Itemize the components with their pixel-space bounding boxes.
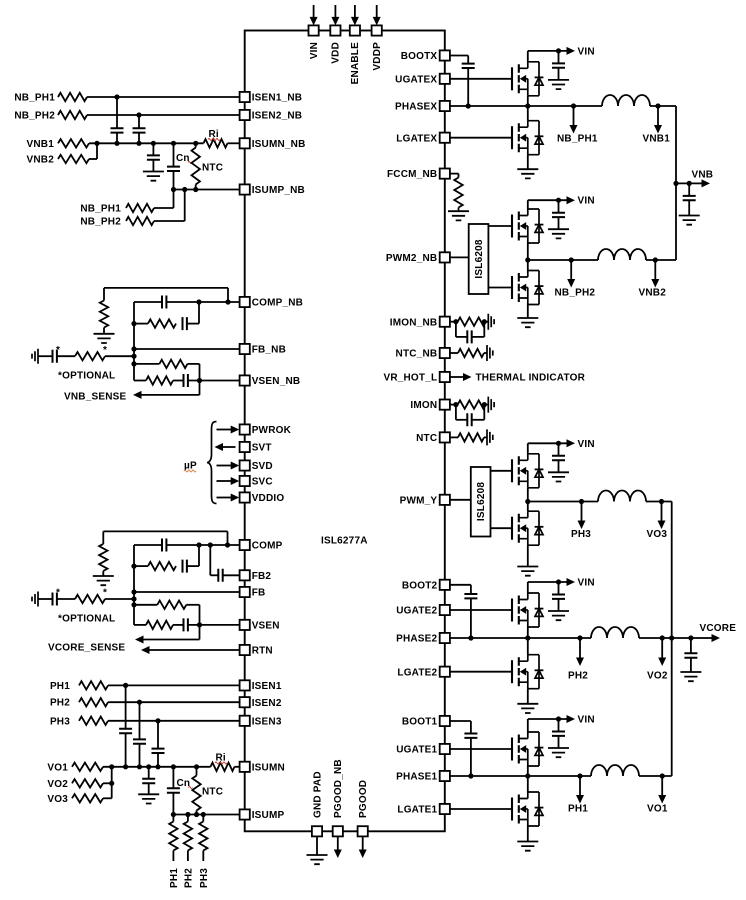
ground QX low source — [517, 169, 538, 178]
pin COMP — [240, 540, 250, 550]
arrow VCORE output — [688, 635, 693, 640]
resistor and capacitor IMON network — [450, 404, 458, 406]
wire COMP_NB upper loop — [104, 287, 228, 289]
svg-text:VSEN: VSEN — [252, 621, 280, 632]
wire Q1 low drain to PHASE1 — [527, 776, 529, 792]
wire QX drain to VIN — [527, 51, 529, 62]
inductor L phase1 — [591, 765, 639, 776]
svg-text:VO3: VO3 — [647, 529, 668, 540]
wire UGATEX to gate — [450, 78, 512, 80]
junction dots on VNB summing line — [94, 141, 99, 146]
pin ISEN1 — [240, 680, 250, 690]
svg-text:*OPTIONAL: *OPTIONAL — [58, 371, 115, 382]
ground GND PAD — [316, 836, 318, 855]
svg-text:ISUMP: ISUMP — [252, 810, 285, 821]
wire BOOT1 — [450, 720, 471, 722]
svg-text:PHASEX: PHASEX — [395, 102, 437, 113]
junction dots ISUMP line — [171, 812, 176, 817]
wire QY source to PH3 node — [527, 488, 529, 502]
resistor COMP to ground — [102, 531, 104, 544]
arrow PGOOD_NB output — [337, 836, 339, 850]
inductor L NB phase2 — [598, 249, 646, 260]
node junction NB_PH2 line — [136, 112, 141, 117]
resistor NTC network — [450, 436, 458, 438]
resistor PH1 to ISUMP — [172, 815, 174, 822]
svg-text:VIN: VIN — [578, 439, 595, 450]
pin UGATEX — [440, 74, 450, 84]
transistor Q2NB high-side — [512, 209, 543, 243]
svg-text:VO2: VO2 — [647, 671, 668, 682]
capacitor ISEN1_NB filter — [116, 97, 118, 128]
svg-text:ISUMN: ISUMN — [252, 762, 285, 773]
wire QY low source to ground — [527, 545, 529, 566]
pin SVD — [240, 460, 250, 470]
svg-text:SVT: SVT — [252, 443, 272, 454]
arrow VNB_SENSE — [199, 381, 201, 395]
node VIN ch2 rail and arrow — [528, 581, 567, 583]
IC U1 ISL6277A body — [245, 31, 445, 832]
arrow PH1 node — [577, 773, 582, 778]
capacitor ISEN2_NB filter — [138, 115, 140, 128]
ground VO sum cap — [138, 794, 159, 803]
svg-text:NTC: NTC — [202, 163, 223, 174]
wire VNB bus — [675, 106, 677, 260]
resistor Ri (NB) — [204, 139, 228, 147]
pin PHASEX — [440, 101, 450, 111]
node VSEN upper branch — [131, 602, 136, 607]
resistor NTC_NB network — [450, 352, 458, 354]
capacitor VSEN lower branch — [134, 624, 146, 626]
svg-text:VDDP: VDDP — [372, 42, 383, 71]
svg-text:NTC_NB: NTC_NB — [396, 349, 438, 360]
pin PWM2_NB — [440, 252, 450, 262]
svg-text:VDD: VDD — [331, 42, 342, 64]
resistor Ri (VCORE) — [211, 763, 235, 771]
pin VDDIO — [240, 492, 250, 502]
node rail to RC branch — [131, 564, 136, 569]
transistor QX low-side — [512, 121, 543, 155]
svg-text:PGOOD: PGOOD — [358, 780, 369, 818]
svg-text:PH3: PH3 — [50, 716, 70, 727]
transistor Q1 low-side — [512, 792, 543, 826]
pin LGATE1 — [440, 804, 450, 814]
arrow VNB1 node — [657, 106, 659, 126]
svg-text:NB_PH1: NB_PH1 — [557, 134, 598, 145]
pin IMON — [440, 400, 450, 410]
svg-text:COMP_NB: COMP_NB — [252, 298, 303, 309]
arrow into VDDIO — [217, 497, 232, 499]
pin FB2 — [240, 570, 250, 580]
wire Q1 source to PHASE1 — [527, 766, 529, 776]
svg-text:FCCM_NB: FCCM_NB — [387, 169, 437, 180]
wire FB_NB rail — [133, 302, 135, 381]
ground optional branch — [32, 592, 38, 607]
wire QX source to PHASEX — [527, 96, 529, 106]
svg-text:ISEN2: ISEN2 — [252, 698, 282, 709]
transistor Q2 high-side — [512, 593, 543, 627]
capacitor ISEN2 filter — [139, 702, 141, 739]
pin VDD — [330, 25, 340, 35]
svg-text:SVC: SVC — [252, 477, 273, 488]
arrow VNB output — [687, 181, 692, 186]
thermistor NTC (NB) — [195, 143, 197, 147]
transistor QY high-side — [512, 454, 543, 488]
arrow NB_PH1 node — [571, 103, 576, 108]
svg-text:VCORE: VCORE — [700, 623, 737, 634]
svg-text:ISEN2_NB: ISEN2_NB — [252, 111, 303, 122]
svg-text:*: * — [56, 588, 60, 599]
svg-text:VO1: VO1 — [647, 804, 668, 815]
wire Q2 source to PHASE2 — [527, 627, 529, 638]
pin UGATE1 — [440, 744, 450, 754]
svg-text:UGATEX: UGATEX — [395, 74, 437, 85]
svg-text:ISUMP_NB: ISUMP_NB — [252, 185, 305, 196]
svg-text:SVD: SVD — [252, 461, 273, 472]
wire UGATE1 to gate — [450, 748, 512, 750]
wire VO2 join — [103, 782, 112, 784]
wire inductor LX to VNB bus — [650, 105, 676, 107]
node VNB tap — [673, 181, 678, 186]
svg-text:ISEN1: ISEN1 — [252, 681, 282, 692]
svg-text:ISL6208: ISL6208 — [476, 482, 487, 521]
node VIN X rail and arrow — [528, 50, 567, 52]
svg-text:VIN: VIN — [309, 42, 320, 59]
svg-text:VSEN_NB: VSEN_NB — [252, 376, 301, 387]
inductor LX NB phase1 — [602, 95, 650, 106]
svg-text:PH1: PH1 — [169, 868, 180, 888]
node VIN ch1 rail and arrow — [528, 718, 567, 720]
resistor PH2 to ISUMP — [187, 815, 189, 822]
wire Q2NB drain to VIN — [527, 200, 529, 209]
svg-text:VNB1: VNB1 — [27, 139, 55, 150]
capacitor C comp (upper branch) — [134, 544, 162, 546]
svg-text:PWM2_NB: PWM2_NB — [386, 253, 437, 264]
pin ISUMP — [240, 809, 250, 819]
pin PWROK — [240, 424, 250, 434]
capacitor bootstrap X — [467, 56, 469, 64]
arrow PH2 node — [577, 635, 582, 640]
svg-text:*: * — [103, 588, 107, 599]
svg-text:*: * — [56, 345, 60, 356]
wire VNB2 join — [89, 158, 97, 160]
capacitor NB sum to ground — [152, 143, 154, 155]
svg-text:VNB: VNB — [692, 170, 714, 181]
resistor VSEN lower branch — [146, 621, 173, 629]
wire PH1 to ISEN1 pin — [108, 684, 240, 686]
resistor VSEN upper branch — [134, 604, 157, 606]
arrow into SVD — [217, 465, 232, 467]
wire PHASE2 node — [450, 637, 591, 639]
pin PHASE1 — [440, 771, 450, 781]
svg-text:BOOTX: BOOTX — [401, 51, 438, 62]
wire PH2 to ISEN2 pin — [108, 701, 240, 703]
wire LGATE2 to gate — [450, 671, 512, 673]
arrow into pin VIN — [313, 5, 315, 17]
capacitor VCORE to ground — [690, 638, 692, 653]
svg-text:PH2: PH2 — [50, 698, 70, 709]
wire COMP upper loop — [103, 530, 227, 532]
svg-text:VR_HOT_L: VR_HOT_L — [383, 373, 437, 384]
inductor L phase2 — [591, 627, 639, 638]
resistor optional NB — [75, 352, 105, 360]
svg-text:VO1: VO1 — [47, 762, 68, 773]
capacitor ISEN3 filter — [157, 721, 159, 749]
pin NTC — [440, 432, 450, 442]
svg-text:PH1: PH1 — [568, 804, 588, 815]
svg-text:NB_PH1: NB_PH1 — [80, 204, 121, 215]
svg-text:VO2: VO2 — [47, 779, 68, 790]
svg-text:COMP: COMP — [252, 541, 283, 552]
capacitor bootstrap 2 — [470, 585, 472, 594]
pin GND PAD — [312, 826, 322, 836]
wire VO3 join — [103, 797, 112, 799]
pin BOOT2 — [440, 580, 450, 590]
pin SVT — [240, 442, 250, 452]
pin FCCM_NB — [440, 169, 450, 179]
capacitor VNB to ground — [688, 183, 690, 196]
arrow out of SVT — [223, 446, 236, 448]
svg-text:PWROK: PWROK — [252, 425, 292, 436]
wire PH3 to ISEN3 pin — [108, 720, 240, 722]
driver U2 ISL6208 box — [469, 224, 489, 294]
arrow NB_PH2 node — [569, 257, 574, 262]
capacitor VIN ch1 decoupling and ground — [558, 719, 560, 732]
arrow VCORE_SENSE from VSEN — [199, 625, 201, 640]
wire QY low drain to phase — [527, 502, 529, 512]
arrow VCORE_SENSE from RTN — [149, 649, 240, 651]
pin LGATEX — [440, 133, 450, 143]
svg-text:Cn: Cn — [176, 153, 190, 164]
resistor PH3 to ISUMP — [202, 815, 204, 822]
svg-text:GND PAD: GND PAD — [312, 771, 323, 818]
wire PWM2_NB to driver — [450, 256, 469, 258]
svg-text:NB_PH2: NB_PH2 — [555, 288, 596, 299]
capacitor VO sum to ground — [148, 767, 150, 779]
transistor Q1 high-side — [512, 732, 543, 766]
ground COMP resistor — [93, 576, 114, 585]
svg-text:THERMAL INDICATOR: THERMAL INDICATOR — [476, 373, 586, 384]
svg-text:LGATE1: LGATE1 — [397, 805, 437, 816]
wire inductor to VCORE node — [639, 637, 672, 639]
wire VNB summing line to ISUMN_NB — [89, 142, 204, 144]
resistor FCCM_NB to ground — [454, 178, 462, 208]
svg-text:FB2: FB2 — [252, 571, 272, 582]
transistor Q2NB low-side — [512, 271, 543, 305]
wire BOOTX — [450, 55, 468, 57]
node VCORE tap — [669, 635, 674, 640]
svg-text:*: * — [103, 345, 107, 356]
wire ISUMP_NB line — [174, 189, 240, 191]
wire Q2 drain to VIN — [527, 582, 529, 593]
capacitor optional NB — [38, 355, 53, 357]
wire Q1 low source to ground — [527, 826, 529, 842]
pin VSEN — [240, 620, 250, 630]
pin IMON_NB — [440, 317, 450, 327]
node VIN NB2 rail and arrow — [528, 199, 567, 201]
wire inductor to VNB bus — [646, 259, 676, 261]
wire Q2NB low source to ground — [527, 305, 529, 319]
node rail to RC branch NB — [131, 321, 136, 326]
capacitor optional — [38, 598, 53, 600]
inductor L phase3 — [598, 491, 646, 502]
junction dots ISUMP_NB line — [171, 187, 176, 192]
ground Q2NB low source — [517, 318, 538, 327]
pin ISEN2_NB — [240, 110, 250, 120]
pin LGATE2 — [440, 667, 450, 677]
ground QY low source — [517, 567, 538, 576]
wire driver to QY high gate — [491, 470, 513, 472]
pin PHASE2 — [440, 633, 450, 643]
junction dots COMP_NB wire — [225, 299, 230, 304]
svg-text:ISL6208: ISL6208 — [474, 239, 485, 278]
wire Q2NB source to NB_PH2 node — [527, 243, 529, 260]
pin ISEN3 — [240, 716, 250, 726]
node optional branch — [131, 596, 136, 601]
capacitor comp NB (series branch) — [183, 317, 187, 330]
arrow VNB2 node — [654, 260, 656, 280]
svg-text:VIN: VIN — [578, 46, 595, 57]
capacitor Cn (VCORE) — [172, 767, 174, 789]
pin RTN — [240, 645, 250, 655]
svg-text:LGATEX: LGATEX — [396, 133, 437, 144]
ground NB sum cap — [143, 172, 164, 181]
wire LGATE1 to gate — [450, 808, 512, 810]
pin PGOOD — [358, 826, 368, 836]
arrow VO3 node — [661, 502, 663, 522]
svg-text:VIN: VIN — [578, 196, 595, 207]
wire Q1 drain to VIN — [527, 719, 529, 732]
svg-text:VO3: VO3 — [47, 794, 68, 805]
svg-text:ISEN3: ISEN3 — [252, 716, 282, 727]
arrow into pin VDD — [334, 5, 336, 17]
transistor Q2 low-side — [512, 655, 543, 689]
wire NB_PH2 to ISEN2_NB pin — [87, 114, 240, 116]
svg-text:NTC: NTC — [416, 433, 437, 444]
ground FCCM_NB resistor — [448, 211, 469, 220]
ground optional branch NB — [32, 349, 38, 364]
ground COMP_NB resistor — [94, 334, 115, 343]
svg-text:UGATE2: UGATE2 — [396, 606, 437, 617]
pin NTC_NB — [440, 348, 450, 358]
capacitor VIN X decoupling and ground — [558, 51, 560, 64]
pin ISEN2 — [240, 697, 250, 707]
svg-text:VNB1: VNB1 — [643, 134, 671, 145]
svg-text:LGATE2: LGATE2 — [397, 667, 437, 678]
arrow into PWROK — [217, 429, 232, 431]
svg-text:ISEN1_NB: ISEN1_NB — [252, 93, 303, 104]
svg-text:VDDIO: VDDIO — [252, 493, 285, 504]
thermistor NTC (VCORE) — [196, 767, 198, 776]
capacitor ISEN1 filter — [125, 685, 127, 728]
wire driver to QY low gate — [491, 527, 513, 529]
svg-text:ISUMN_NB: ISUMN_NB — [252, 139, 306, 150]
wire LGATEX to gate — [450, 137, 512, 139]
wire ISUMP line — [173, 814, 239, 816]
svg-text:PH3: PH3 — [571, 529, 591, 540]
svg-text:IMON_NB: IMON_NB — [390, 317, 438, 328]
wire NB_PH2 phase node — [528, 259, 598, 261]
pin ISUMN — [240, 762, 250, 772]
resistor VSEN_NB upper branch — [134, 363, 159, 365]
svg-text:PGOOD_NB: PGOOD_NB — [333, 759, 344, 818]
svg-text:PH1: PH1 — [50, 681, 70, 692]
wire inductor to VCORE bus bottom — [639, 775, 672, 777]
svg-text:µP: µP — [184, 461, 197, 472]
svg-text:VNB2: VNB2 — [27, 154, 55, 165]
capacitor VSEN_NB lower branch — [134, 380, 146, 382]
svg-text:Cn: Cn — [177, 778, 191, 789]
arrow into pin VDDP — [376, 5, 378, 17]
capacitor VIN ch2 decoupling and ground — [558, 582, 560, 595]
ground Q1 low source — [517, 842, 538, 851]
pin PGOOD_NB — [333, 826, 343, 836]
wire PWM_Y to driver — [450, 499, 471, 501]
resistor COMP_NB to ground — [103, 288, 105, 301]
wire NB_PH1 ISUMP branch — [154, 207, 174, 209]
ground Q2 low source — [517, 704, 538, 713]
capacitor FB2 — [209, 545, 211, 575]
wire PH3 phase node — [528, 501, 598, 503]
arrow VO1 node — [661, 776, 663, 796]
svg-text:PWM_Y: PWM_Y — [400, 495, 438, 506]
wire Q2NB low drain to phase — [527, 260, 529, 271]
arrow PGOOD output — [362, 836, 364, 850]
resistor optional — [75, 595, 105, 603]
wire NB_PH1 to ISEN1_NB pin — [87, 96, 240, 98]
svg-text:ISL6277A: ISL6277A — [321, 536, 368, 547]
svg-text:PH3: PH3 — [199, 868, 210, 888]
svg-text:RTN: RTN — [252, 646, 273, 657]
node junction NB_PH1 line — [114, 94, 119, 99]
wire QX low drain to PHASEX — [527, 106, 529, 121]
wire PHASEX node — [450, 105, 602, 107]
brace uP interface — [207, 422, 217, 504]
svg-text:BOOT2: BOOT2 — [402, 580, 438, 591]
wire Q2 low source to ground — [527, 689, 529, 704]
pin VSEN_NB — [240, 375, 250, 385]
resistor R comp (series branch) — [134, 565, 148, 567]
node optional branch NB — [131, 354, 136, 359]
svg-text:FB_NB: FB_NB — [252, 345, 286, 356]
wire FB_NB to rail — [134, 348, 240, 350]
transistor QY low-side — [512, 511, 543, 545]
arrow VO2 node — [661, 638, 663, 658]
pin UGATE2 — [440, 605, 450, 615]
capacitor C comp NB (upper branch) — [134, 301, 162, 303]
capacitor bootstrap 1 — [470, 721, 472, 734]
node VSEN wire — [197, 622, 202, 627]
node VSEN_NB upper branch — [131, 361, 136, 366]
pin FB — [240, 587, 250, 597]
resistor VSEN_NB lower branch — [146, 376, 173, 384]
svg-text:VIN: VIN — [578, 578, 595, 589]
svg-text:BOOT1: BOOT1 — [402, 717, 438, 728]
svg-text:ENABLE: ENABLE — [350, 42, 361, 84]
pin ISEN1_NB — [240, 92, 250, 102]
junction dots on VO summing line — [109, 764, 114, 769]
capacitor VIN NB2 decoupling and ground — [558, 200, 560, 213]
wire inductor to VCORE bus — [646, 501, 672, 503]
svg-text:PH2: PH2 — [568, 671, 588, 682]
pin VR_HOT_L — [440, 372, 450, 382]
wire QY drain to VIN — [527, 443, 529, 454]
capacitor VIN Y decoupling and ground — [558, 443, 560, 456]
svg-text:IMON: IMON — [410, 400, 437, 411]
transistor QX high-side — [512, 62, 543, 96]
pin BOOT1 — [440, 716, 450, 726]
wire QX low source to ground — [527, 155, 529, 170]
pin VIN — [309, 25, 319, 35]
